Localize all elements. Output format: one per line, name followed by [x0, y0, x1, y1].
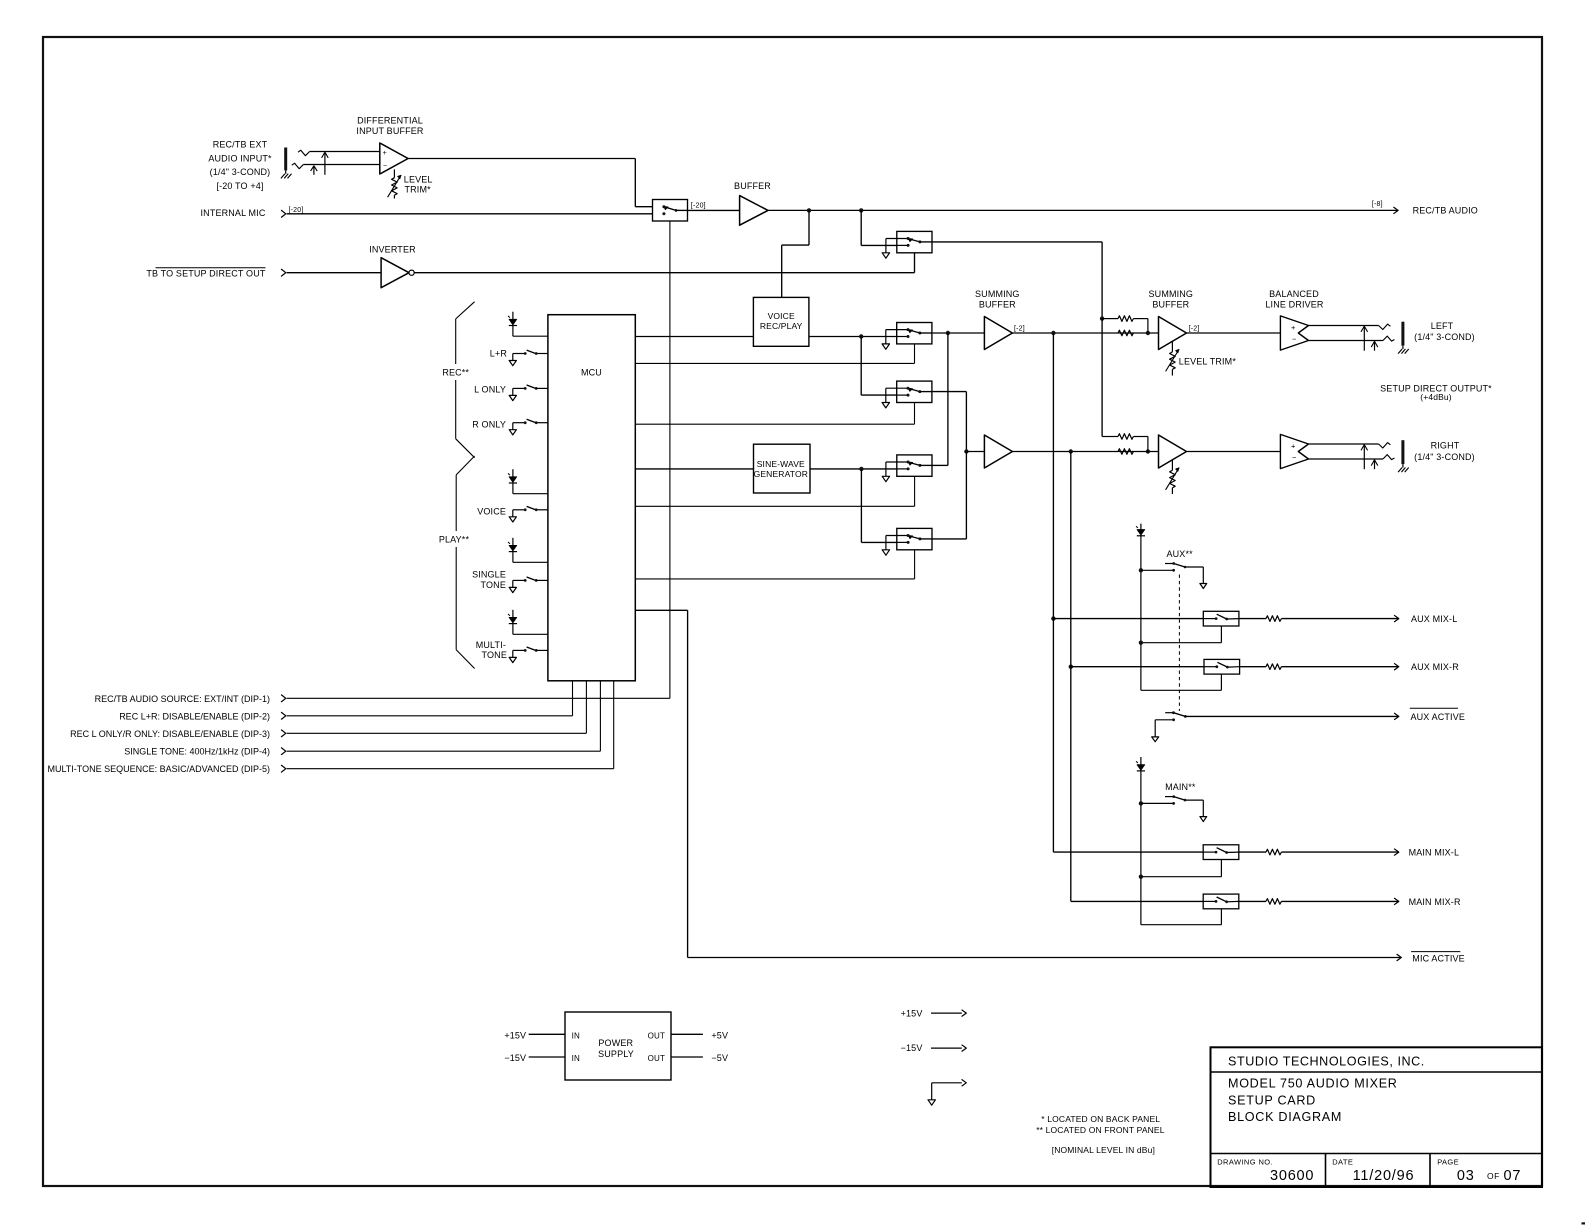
svg-text:+: + — [383, 150, 387, 157]
op-amp U5 summing buffer L — [984, 317, 1012, 350]
output REC/TB AUDIO — [1393, 207, 1398, 214]
brace PLAY group — [456, 456, 474, 475]
wire node B to switch S2 input — [860, 210, 862, 245]
op-amp U9 summing buffer R2 — [1159, 435, 1187, 468]
output AUX MIX-L — [1394, 615, 1399, 622]
wire MCU control to S4 — [635, 423, 914, 425]
ganging dashed link — [1178, 575, 1180, 712]
svg-text:* LOCATED ON BACK PANEL: * LOCATED ON BACK PANEL — [1041, 1114, 1160, 1124]
output MAIN MIX-L — [1394, 849, 1399, 856]
switch S9 main mix-l — [1203, 845, 1239, 860]
wire sine output to S5/S6 — [810, 468, 897, 470]
line driver U7 — [1280, 316, 1308, 350]
svg-text:03: 03 — [1457, 1168, 1475, 1184]
svg-text:BALANCED: BALANCED — [1269, 289, 1319, 299]
svg-text:BUFFER: BUFFER — [734, 181, 771, 191]
wire S8 control — [1220, 674, 1222, 690]
switch S1 ext/int select — [653, 200, 688, 222]
switch AUX enable — [1139, 568, 1143, 572]
node aux/main R tap — [1069, 449, 1073, 453]
wire MAIN MIX-L — [1053, 851, 1203, 853]
wire VOICE output to S3/S4 — [809, 336, 897, 338]
svg-text:INTERNAL MIC: INTERNAL MIC — [201, 208, 266, 218]
svg-text:MCU: MCU — [581, 367, 602, 377]
wire +5V out — [671, 1033, 703, 1035]
node B junction to switch S2 — [859, 208, 863, 212]
svg-text:−: − — [1292, 335, 1297, 344]
svg-text:GENERATOR: GENERATOR — [754, 469, 808, 479]
svg-text:MAIN MIX-R: MAIN MIX-R — [1409, 897, 1461, 907]
svg-text:−5V: −5V — [711, 1053, 728, 1063]
title block — [1211, 1047, 1543, 1187]
svg-text:AUX**: AUX** — [1167, 549, 1194, 559]
output MAIN MIX-R — [1394, 898, 1399, 905]
switch S6 tone right — [897, 528, 932, 549]
svg-text:VOICE: VOICE — [477, 506, 506, 516]
svg-text:+15V: +15V — [504, 1030, 526, 1040]
wire MCU control to S3 — [635, 362, 914, 364]
svg-text:IN: IN — [572, 1054, 580, 1063]
MCU U4 — [548, 315, 635, 681]
level trim pot R1 — [393, 169, 395, 177]
ground reference arrow — [932, 1082, 962, 1084]
switch S10 main mix-r — [1203, 894, 1239, 909]
wire S1 control to DIP-1 — [669, 221, 671, 698]
svg-text:PLAY**: PLAY** — [439, 535, 470, 545]
svg-text:OF: OF — [1487, 1171, 1500, 1181]
jack J1 tip arrow — [324, 153, 326, 175]
switch MAIN enable — [1139, 801, 1143, 805]
LED D1 record — [512, 312, 514, 337]
resistor R11 main mix-r — [1239, 900, 1266, 902]
wire S4 output to summing buffer R — [932, 391, 967, 393]
svg-text:IN: IN — [572, 1031, 580, 1040]
wire node A to VOICE REC/PLAY box — [808, 210, 810, 245]
wire MCU control to S5 — [635, 505, 914, 507]
wire AUX ACTIVE output — [1185, 715, 1399, 717]
svg-text:SINGLE: SINGLE — [472, 570, 506, 580]
svg-text:−15V: −15V — [504, 1053, 526, 1063]
node S5 join — [946, 331, 950, 335]
svg-text:LEVEL: LEVEL — [404, 174, 433, 184]
svg-text:MAIN**: MAIN** — [1165, 782, 1196, 792]
jack J3 RIGHT output — [1309, 443, 1379, 445]
wire MCU to VOICE REC/PLAY — [635, 336, 753, 338]
registration mark — [1582, 1222, 1585, 1224]
svg-text:TB TO SETUP DIRECT OUT: TB TO SETUP DIRECT OUT — [146, 269, 266, 279]
svg-text:SINE-WAVE: SINE-WAVE — [757, 459, 805, 469]
resistor R10 main mix-l — [1239, 851, 1266, 853]
svg-text:BUFFER: BUFFER — [1152, 299, 1189, 309]
svg-text:+15V: +15V — [901, 1009, 923, 1019]
svg-text:SUMMING: SUMMING — [1149, 289, 1194, 299]
resistor R8 aux mix-l — [1239, 618, 1266, 620]
svg-text:MODEL 750 AUDIO MIXER: MODEL 750 AUDIO MIXER — [1228, 1077, 1398, 1091]
svg-text:AUX ACTIVE: AUX ACTIVE — [1411, 712, 1466, 722]
svg-text:DIFFERENTIAL: DIFFERENTIAL — [357, 116, 423, 126]
node S6 join — [964, 449, 968, 453]
svg-text:REC**: REC** — [442, 367, 469, 377]
jack J2 LEFT output — [1309, 325, 1379, 327]
wire U9 to line driver U10 — [1187, 451, 1281, 453]
label AUX ACTIVE — [1410, 707, 1458, 709]
wire -5V out — [671, 1056, 703, 1058]
level trim pot R4 — [1171, 341, 1173, 352]
svg-text:** LOCATED ON FRONT PANEL: ** LOCATED ON FRONT PANEL — [1036, 1125, 1165, 1135]
svg-text:TRIM*: TRIM* — [405, 184, 432, 194]
op-amp U8 summing buffer R — [984, 435, 1012, 468]
svg-text:OUT: OUT — [648, 1054, 665, 1063]
wire MCU to MIC ACTIVE — [635, 609, 687, 611]
svg-text:AUX MIX-L: AUX MIX-L — [1411, 614, 1457, 624]
svg-text:MULTI-TONE SEQUENCE: BASIC/ADV: MULTI-TONE SEQUENCE: BASIC/ADVANCED (DIP… — [47, 764, 270, 774]
wire U1 output to S1 — [408, 158, 635, 160]
svg-text:−: − — [383, 163, 387, 170]
svg-text:REC L+R: DISABLE/ENABLE (DIP-2: REC L+R: DISABLE/ENABLE (DIP-2) — [119, 711, 270, 721]
input jack J1 (REC/TB EXT AUDIO INPUT) — [284, 148, 287, 171]
svg-text:AUX MIX-R: AUX MIX-R — [1411, 662, 1459, 672]
resistor R9 aux mix-r — [1240, 666, 1266, 668]
LED D6 main — [1140, 757, 1142, 925]
wire S3 output to summing buffer L — [932, 332, 985, 334]
switch S7 aux mix-l — [1203, 611, 1239, 626]
svg-text:[-20]: [-20] — [289, 207, 304, 214]
block SINE-WAVE GENERATOR — [754, 444, 811, 493]
switch S8 aux mix-r — [1204, 659, 1240, 674]
node aux/main L tap — [1051, 331, 1055, 335]
svg-text:[NOMINAL LEVEL IN dBu]: [NOMINAL LEVEL IN dBu] — [1052, 1145, 1155, 1155]
node aux R tap — [1069, 665, 1073, 669]
svg-text:R ONLY: R ONLY — [472, 420, 506, 430]
output AUX MIX-R — [1394, 663, 1399, 670]
brace REC group — [456, 302, 475, 319]
node voice split — [859, 334, 863, 338]
op-amp U1 differential input buffer — [380, 143, 408, 174]
wire S7 control — [1220, 626, 1222, 643]
svg-text:MIC ACTIVE: MIC ACTIVE — [1412, 953, 1465, 963]
svg-text:+: + — [1291, 323, 1296, 332]
wire MCU control to S6 — [635, 578, 914, 580]
svg-text:−: − — [1292, 453, 1297, 462]
wire MAIN MIX-R — [1071, 900, 1203, 902]
svg-text:STUDIO TECHNOLOGIES, INC.: STUDIO TECHNOLOGIES, INC. — [1228, 1055, 1425, 1069]
level trim pot R7 — [1171, 460, 1173, 471]
svg-text:OUT: OUT — [648, 1031, 665, 1040]
svg-text:SUMMING: SUMMING — [975, 289, 1020, 299]
svg-text:DRAWING NO.: DRAWING NO. — [1217, 1157, 1273, 1166]
wire inverter output to switch S2 bottom pin — [414, 272, 914, 274]
svg-text:REC/TB AUDIO SOURCE: EXT/INT (: REC/TB AUDIO SOURCE: EXT/INT (DIP-1) — [95, 694, 270, 704]
svg-text:BLOCK DIAGRAM: BLOCK DIAGRAM — [1228, 1110, 1342, 1124]
input TB TO SETUP DIRECT OUT — [156, 267, 266, 269]
svg-text:TONE: TONE — [481, 580, 506, 590]
wire U5 output line — [1012, 332, 1158, 334]
svg-text:[-20 TO +4]: [-20 TO +4] — [216, 181, 263, 191]
svg-text:07: 07 — [1504, 1168, 1522, 1184]
svg-text:PAGE: PAGE — [1437, 1157, 1459, 1166]
svg-text:LEVEL TRIM*: LEVEL TRIM* — [1179, 356, 1237, 366]
op-amp U2 buffer — [688, 209, 740, 211]
svg-text:VOICE: VOICE — [768, 311, 795, 321]
ground symbol — [928, 1100, 935, 1105]
svg-text:L ONLY: L ONLY — [474, 385, 506, 395]
wire S5 output riser — [932, 464, 948, 466]
svg-text:REC/PLAY: REC/PLAY — [760, 321, 803, 331]
svg-text:+: + — [1291, 441, 1296, 450]
wire S6 output riser — [932, 538, 966, 540]
node A junction to voice record — [807, 208, 811, 212]
wire AUX MIX-L — [1052, 333, 1054, 852]
LED D3 play single tone — [512, 538, 514, 563]
LED D5 aux — [1140, 524, 1142, 691]
svg-text:[-20]: [-20] — [691, 202, 706, 209]
wire S2 output to summing resistors — [932, 241, 1102, 243]
switch S2 rec/tb source — [897, 231, 932, 252]
wire S10 control — [1220, 909, 1222, 925]
svg-text:INPUT BUFFER: INPUT BUFFER — [356, 126, 423, 136]
svg-text:(1/4" 3-COND): (1/4" 3-COND) — [210, 167, 271, 177]
wire S9 control — [1220, 859, 1222, 876]
svg-text:30600: 30600 — [1270, 1168, 1314, 1184]
resistor R2 rec/tb to U6 — [1102, 318, 1118, 320]
wire U8 output line — [1012, 451, 1158, 453]
block VOICE REC/PLAY — [753, 297, 809, 346]
resistor R6 U8 to U9 — [1118, 449, 1133, 455]
svg-text:MAIN MIX-L: MAIN MIX-L — [1409, 848, 1460, 858]
svg-text:−15V: −15V — [901, 1043, 923, 1053]
switch AUX ACTIVE — [1165, 712, 1173, 714]
svg-text:[-2]: [-2] — [1189, 326, 1200, 333]
svg-text:LINE DRIVER: LINE DRIVER — [1265, 299, 1324, 309]
svg-text:[-8]: [-8] — [1372, 201, 1383, 208]
svg-text:AUDIO INPUT*: AUDIO INPUT* — [208, 153, 272, 163]
resistor R3 U5 to U6 — [1118, 330, 1133, 336]
svg-text:SUPPLY: SUPPLY — [598, 1049, 634, 1059]
wire REC/TB audio main line — [768, 209, 1398, 211]
wire J1 ring to U1 - — [303, 164, 379, 166]
LED D2 play voice — [512, 469, 514, 494]
svg-text:MULTI-: MULTI- — [476, 640, 506, 650]
wire INTERNAL MIC to S1 — [287, 213, 653, 215]
svg-text:[-2]: [-2] — [1014, 326, 1025, 333]
svg-text:SINGLE TONE: 400Hz/1kHz (DIP-4: SINGLE TONE: 400Hz/1kHz (DIP-4) — [124, 747, 270, 757]
node S2 feed resistor L — [1100, 316, 1104, 320]
wire U6 to line driver U7 — [1187, 332, 1281, 334]
wire J1 tip to U1 + — [310, 151, 380, 153]
svg-text:(1/4" 3-COND): (1/4" 3-COND) — [1414, 452, 1475, 462]
label MIC ACTIVE — [1411, 951, 1460, 953]
svg-text:INVERTER: INVERTER — [369, 244, 416, 254]
svg-text:+5V: +5V — [711, 1030, 728, 1040]
jack J1 ring arrow — [313, 166, 315, 175]
wire MCU to sine-wave generator — [635, 468, 753, 470]
svg-text:DATE: DATE — [1332, 1157, 1353, 1166]
svg-text:BUFFER: BUFFER — [979, 299, 1016, 309]
svg-text:REC L ONLY/R ONLY: DISABLE/ENA: REC L ONLY/R ONLY: DISABLE/ENABLE (DIP-3… — [70, 729, 270, 739]
wire MIC ACTIVE output — [688, 957, 1402, 959]
block POWER SUPPLY — [565, 1012, 671, 1080]
svg-text:SETUP CARD: SETUP CARD — [1228, 1093, 1316, 1107]
switch S5 tone left — [897, 455, 932, 476]
switch S3 voice left — [897, 323, 932, 344]
svg-text:11/20/96: 11/20/96 — [1353, 1168, 1415, 1184]
node aux L tap — [1051, 616, 1055, 620]
resistor R5 rec/tb to U9 — [1101, 319, 1103, 437]
wire AUX MIX-R — [1070, 452, 1072, 902]
svg-text:REC/TB AUDIO: REC/TB AUDIO — [1413, 206, 1478, 216]
svg-text:REC/TB EXT: REC/TB EXT — [213, 139, 268, 149]
svg-text:L+R: L+R — [490, 349, 508, 359]
op-amp U6 summing buffer L2 — [1159, 317, 1187, 350]
switch S4 voice right — [897, 381, 932, 402]
svg-text:TONE: TONE — [482, 650, 507, 660]
op-amp U3 inverter — [381, 258, 409, 288]
svg-text:LEFT: LEFT — [1431, 321, 1454, 331]
node sine split — [859, 467, 863, 471]
svg-text:(+4dBu): (+4dBu) — [1420, 392, 1452, 402]
line driver U10 — [1280, 434, 1308, 468]
node mix resistor join R — [1146, 449, 1150, 453]
LED D4 play multi tone — [512, 610, 514, 635]
node mix resistor join L — [1146, 331, 1150, 335]
svg-text:(1/4" 3-COND): (1/4" 3-COND) — [1414, 332, 1475, 342]
svg-text:RIGHT: RIGHT — [1431, 440, 1460, 450]
svg-text:POWER: POWER — [598, 1038, 633, 1048]
